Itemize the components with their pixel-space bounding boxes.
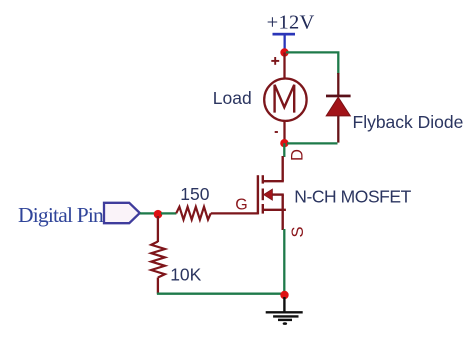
ground dot xyxy=(283,322,287,325)
diode D1 flyback xyxy=(326,95,351,116)
source lead vertical xyxy=(282,195,284,230)
wire R2 to ground rail xyxy=(157,278,159,294)
svg-text:Digital Pin: Digital Pin xyxy=(18,203,104,227)
wire motor bottom to drain node xyxy=(283,121,285,143)
node junction dot at drain net xyxy=(280,139,288,147)
node junction dot at input xyxy=(154,210,163,219)
drain lead vertical xyxy=(282,156,284,181)
power rail symbol (+12V bar) xyxy=(273,33,296,52)
svg-text:G: G xyxy=(235,196,247,213)
svg-text:D: D xyxy=(289,149,307,161)
wire pin to input node (green) xyxy=(140,212,155,214)
wire ground rail horizontal (green) xyxy=(157,293,281,295)
svg-text:S: S xyxy=(289,226,307,237)
svg-text:10K: 10K xyxy=(170,264,201,284)
resistor R1 150 xyxy=(176,207,211,220)
motor M1 (Load) xyxy=(264,79,306,121)
transistor Q1 N-CH MOSFET xyxy=(258,156,286,230)
wire diode anode lead xyxy=(337,116,339,143)
polarity label + xyxy=(271,57,279,65)
drain horizontal xyxy=(263,180,284,182)
wire diode cathode lead xyxy=(337,73,339,96)
wire input node to resistor R2 xyxy=(157,216,159,242)
gate bar xyxy=(257,175,259,214)
wire MOSFET source to ground node (green) xyxy=(283,229,285,292)
node junction dot at +12V xyxy=(280,48,288,56)
channel segment middle xyxy=(262,189,264,201)
resistor R2 10K xyxy=(151,242,165,278)
body arrow of Q1 xyxy=(264,189,273,200)
svg-text:+12V: +12V xyxy=(267,12,315,34)
wire input node to resistor R1 (green) xyxy=(161,212,176,214)
wire diode bottom to drain node (green) xyxy=(287,142,338,144)
channel segment bottom xyxy=(262,204,264,214)
body arrow line xyxy=(271,193,284,195)
svg-text:N-CH MOSFET: N-CH MOSFET xyxy=(294,187,411,207)
connector pin symbol xyxy=(104,203,140,223)
channel segment top xyxy=(262,175,264,183)
wire +12V node to motor top xyxy=(283,53,285,80)
svg-text:Flyback Diode: Flyback Diode xyxy=(353,112,464,132)
polarity label - xyxy=(275,131,278,133)
source bottom horizontal xyxy=(263,209,286,211)
wire R1 to gate xyxy=(211,212,258,214)
wire +12V node to diode top (green) xyxy=(286,52,338,74)
svg-text:150: 150 xyxy=(180,184,209,204)
node junction dot at ground xyxy=(280,291,288,299)
svg-text:Load: Load xyxy=(213,88,252,108)
ground symbol xyxy=(266,297,303,320)
wire drain node to MOSFET drain (green) xyxy=(283,143,285,157)
